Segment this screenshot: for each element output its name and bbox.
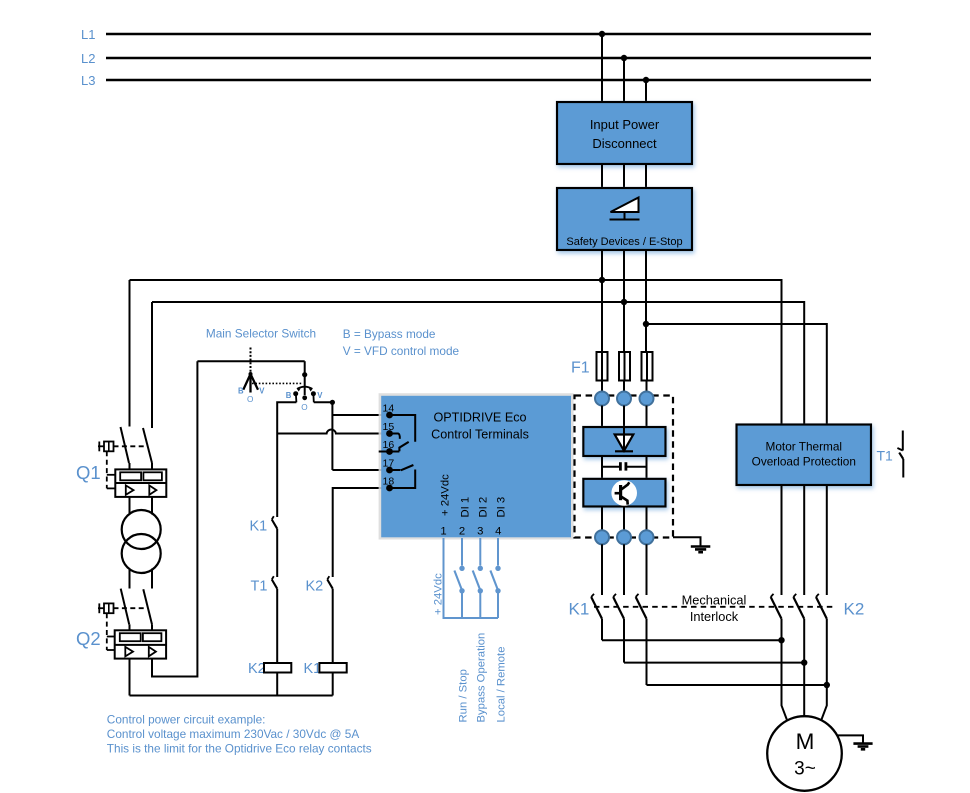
wire L1 rail xyxy=(106,33,871,36)
junction row C xyxy=(824,682,830,688)
terminal number 3 xyxy=(477,526,483,538)
svg-text:Q1: Q1 xyxy=(76,462,101,483)
wire disconnect to safety phase1 xyxy=(601,164,603,188)
svg-text:Run / Stop: Run / Stop xyxy=(457,669,469,722)
wire motor earth xyxy=(838,735,864,743)
svg-text:Motor Thermal: Motor Thermal xyxy=(766,440,842,454)
label B = Bypass mode xyxy=(343,327,436,341)
svg-text:F1: F1 xyxy=(571,360,590,377)
wire K1 output row B xyxy=(624,662,804,664)
coil K1 xyxy=(304,661,347,696)
svg-text:T1: T1 xyxy=(251,579,268,595)
svg-text:DI 1: DI 1 xyxy=(459,497,471,518)
svg-text:4: 4 xyxy=(495,526,501,538)
svg-text:V = VFD control mode: V = VFD control mode xyxy=(343,344,460,358)
wire fuses to drive input xyxy=(602,381,647,394)
note control power circuit xyxy=(107,713,372,756)
svg-text:16: 16 xyxy=(383,439,395,451)
wire overload to K2 phase3 xyxy=(826,485,828,595)
fuse F1 label xyxy=(571,360,590,377)
contactor K1 pole3 xyxy=(636,594,647,685)
svg-text:17: 17 xyxy=(383,458,395,470)
wire K1 output row C xyxy=(647,684,827,686)
contact K1 aux xyxy=(250,516,278,577)
svg-text:18: 18 xyxy=(383,476,395,488)
contactor K2 pole3 xyxy=(816,594,827,685)
wire motor lead 2 xyxy=(803,663,805,717)
svg-text:L3: L3 xyxy=(81,73,95,88)
wire Q1 to transformer xyxy=(130,497,153,515)
svg-text:K1: K1 xyxy=(250,519,268,535)
wire overload to K2 phase1 xyxy=(781,485,783,595)
wire control bottom rail xyxy=(130,695,333,697)
svg-text:K2: K2 xyxy=(306,579,324,595)
wire motor lead 1 xyxy=(782,640,787,719)
block Safety Devices / E-Stop xyxy=(557,188,692,250)
wire to terminal 17 xyxy=(332,469,389,471)
block Input Power Disconnect xyxy=(557,102,692,164)
selector switch pole 1 xyxy=(238,348,265,405)
junction row1 xyxy=(599,277,605,283)
switch Run / Stop xyxy=(454,538,469,723)
svg-text:O: O xyxy=(301,403,307,412)
terminal number 2 xyxy=(459,526,465,538)
junction row3 xyxy=(643,321,649,327)
junction row A xyxy=(778,637,784,643)
wire drive outputs to K1 contacts xyxy=(602,544,647,595)
svg-text:This is the limit for the Opti: This is the limit for the Optidrive Eco … xyxy=(107,742,372,756)
svg-text:L2: L2 xyxy=(81,51,95,66)
drive output terminal V xyxy=(617,530,631,544)
contactor K1 label xyxy=(569,600,590,619)
svg-text:K1: K1 xyxy=(569,600,590,619)
terminal label +24Vdc xyxy=(439,474,451,516)
svg-text:Q2: Q2 xyxy=(76,628,101,649)
svg-text:2: 2 xyxy=(459,526,465,538)
svg-text:3: 3 xyxy=(477,526,483,538)
contactor K1 pole1 xyxy=(591,594,602,640)
svg-text:Local / Remote: Local / Remote xyxy=(496,647,508,723)
wire L3 drop to disconnect xyxy=(645,80,647,102)
wire safety out phase2 xyxy=(623,250,625,352)
svg-text:L1: L1 xyxy=(81,27,95,42)
wire disconnect to safety phase3 xyxy=(645,164,647,188)
label T1 xyxy=(877,448,894,464)
wire vfd-side top edge xyxy=(314,402,333,470)
mechanical interlock dashed link xyxy=(594,606,835,608)
svg-text:O: O xyxy=(247,395,253,404)
terminal 17 xyxy=(383,458,395,474)
mechanical link selector poles xyxy=(252,382,303,384)
wire to terminal 18 and K1-coil branch xyxy=(333,488,390,577)
wire K1 output row A xyxy=(602,639,782,641)
contact K2 aux xyxy=(306,576,333,663)
wire safety out phase3 xyxy=(645,250,647,352)
wire safety out phase1 xyxy=(601,250,603,352)
drive input terminal L1 xyxy=(595,392,609,406)
junction on L1 xyxy=(599,31,605,37)
switch Bypass Operation xyxy=(473,538,488,723)
svg-text:Control power circuit example:: Control power circuit example: xyxy=(107,713,266,727)
motor M 3~ xyxy=(767,716,842,791)
dc bus with capacitor xyxy=(602,456,647,479)
fuse F1 phase1 xyxy=(597,352,608,381)
wire left drop to Q1 pole2 xyxy=(151,302,153,428)
junction selector corner xyxy=(330,400,335,405)
svg-text:+ 24Vdc: + 24Vdc xyxy=(433,573,445,615)
svg-text:V: V xyxy=(259,387,265,396)
svg-text:Overload Protection: Overload Protection xyxy=(752,455,856,469)
wire bypass-side top edge xyxy=(277,402,296,433)
wire control tap row1 xyxy=(130,280,782,425)
contactor K2 pole1 xyxy=(771,594,782,640)
wire left drop to Q1 pole1 xyxy=(129,280,131,427)
wire bypass tap row3 xyxy=(646,324,827,425)
node L1 xyxy=(81,27,95,42)
terminal 14 xyxy=(383,403,395,419)
label +24Vdc external xyxy=(433,573,445,615)
svg-text:1: 1 xyxy=(440,526,446,538)
svg-text:Control voltage maximum 230Vac: Control voltage maximum 230Vac / 30Vdc @… xyxy=(107,727,360,741)
wire Q2 left output to bottom rail xyxy=(129,659,131,696)
terminal 18 xyxy=(383,476,395,492)
wire motor lead 3 xyxy=(822,685,827,720)
wire to terminal 15 with hop xyxy=(277,429,389,433)
svg-text:OPTIDRIVE Eco: OPTIDRIVE Eco xyxy=(433,411,526,425)
wire L2 rail xyxy=(106,57,871,60)
wire to terminal 14 xyxy=(332,414,389,416)
terminal label DI 1 xyxy=(459,497,471,518)
svg-text:14: 14 xyxy=(383,403,395,415)
ground drive xyxy=(691,547,711,553)
wire L1 drop to disconnect xyxy=(601,34,603,102)
terminal label DI 3 xyxy=(495,497,507,518)
inverter block Q xyxy=(583,479,665,507)
terminal label DI 2 xyxy=(477,497,489,518)
transformer control xyxy=(122,510,161,573)
block OPTIDRIVE Eco Control Terminals U1 xyxy=(379,393,574,539)
block Motor Thermal Overload Protection xyxy=(737,425,872,486)
junction on L3 xyxy=(643,77,649,83)
wire overload to K2 phase2 xyxy=(803,485,805,595)
wire bypass branch down xyxy=(276,434,278,518)
drive input terminal L2 xyxy=(617,392,631,406)
rectifier block xyxy=(583,427,665,456)
svg-text:B: B xyxy=(286,391,292,400)
wire control tap row2 xyxy=(152,302,804,425)
terminal number 1 xyxy=(440,526,446,538)
node L3 xyxy=(81,73,95,88)
fuse F1 phase2 xyxy=(619,352,630,381)
node L2 xyxy=(81,51,95,66)
drive input terminal L3 xyxy=(640,392,654,406)
drive power section dashed enclosure xyxy=(575,396,674,538)
contactor K1 pole2 xyxy=(613,594,624,663)
wire +24Vdc rail xyxy=(444,538,499,618)
relay contact 17-18 xyxy=(390,465,416,488)
junction row2 xyxy=(621,299,627,305)
drive output terminal U xyxy=(595,530,609,544)
wire inverter to output terminals xyxy=(602,507,647,531)
junction row B xyxy=(801,659,807,665)
circuit breaker Q2 xyxy=(76,589,166,659)
svg-text:Main Selector Switch: Main Selector Switch xyxy=(206,327,316,341)
wire L2 drop to disconnect xyxy=(623,58,625,102)
wire L3 rail xyxy=(106,79,871,82)
wire transformer to Q2 xyxy=(130,569,153,589)
circuit breaker Q1 xyxy=(76,427,166,497)
ground motor xyxy=(853,744,872,750)
wire drive earth xyxy=(673,537,701,546)
svg-text:Input Power: Input Power xyxy=(590,117,660,132)
svg-text:+ 24Vdc: + 24Vdc xyxy=(439,474,451,516)
junction on L2 xyxy=(621,55,627,61)
terminal number 4 xyxy=(495,526,501,538)
contact T1 aux xyxy=(251,576,278,663)
label Mechanical Interlock xyxy=(682,593,747,625)
svg-text:DI 2: DI 2 xyxy=(477,497,489,518)
label V = VFD control mode xyxy=(343,344,460,358)
wire selector feed xyxy=(197,360,304,362)
svg-text:Bypass Operation: Bypass Operation xyxy=(476,633,488,723)
label Main Selector Switch xyxy=(206,327,316,341)
svg-text:Control Terminals: Control Terminals xyxy=(431,428,529,442)
wire Q2 right output to selector riser xyxy=(152,361,197,676)
contactor K2 label xyxy=(844,600,865,619)
svg-text:3~: 3~ xyxy=(794,759,816,780)
svg-text:Interlock: Interlock xyxy=(690,609,739,624)
svg-text:Disconnect: Disconnect xyxy=(592,136,657,151)
coil K2 xyxy=(248,661,291,696)
svg-text:Safety Devices / E-Stop: Safety Devices / E-Stop xyxy=(566,236,682,248)
terminal 16 xyxy=(383,439,395,455)
svg-text:M: M xyxy=(796,729,815,754)
wire terminals to rectifier xyxy=(602,406,647,428)
drive output terminal W xyxy=(640,530,654,544)
svg-text:DI 3: DI 3 xyxy=(495,497,507,518)
fuse F1 phase3 xyxy=(642,352,653,381)
svg-text:T1: T1 xyxy=(877,448,894,464)
svg-text:B: B xyxy=(238,387,244,396)
svg-text:Mechanical: Mechanical xyxy=(682,593,747,608)
relay contact 14-15-16 xyxy=(379,415,416,452)
contact T1 thermal xyxy=(897,431,903,478)
wire disconnect to safety phase2 xyxy=(623,164,625,188)
svg-text:15: 15 xyxy=(383,421,395,433)
svg-text:V: V xyxy=(317,391,323,400)
contactor K2 pole2 xyxy=(793,594,804,663)
terminal 15 xyxy=(383,421,395,437)
svg-text:B = Bypass mode: B = Bypass mode xyxy=(343,327,436,341)
selector switch pole 2 xyxy=(286,361,323,412)
switch Local / Remote xyxy=(490,538,507,723)
svg-text:K2: K2 xyxy=(844,600,865,619)
